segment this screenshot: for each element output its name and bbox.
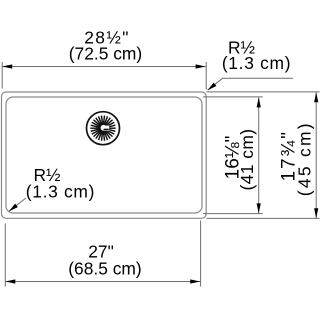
svg-text:(45 cm): (45 cm) — [295, 121, 315, 196]
svg-text:(1.3 cm): (1.3 cm) — [222, 53, 291, 73]
svg-text:(1.3 cm): (1.3 cm) — [26, 181, 95, 201]
svg-text:(68.5 cm): (68.5 cm) — [68, 259, 141, 279]
svg-text:(41 cm): (41 cm) — [237, 128, 257, 190]
svg-text:(72.5 cm): (72.5 cm) — [69, 44, 142, 64]
